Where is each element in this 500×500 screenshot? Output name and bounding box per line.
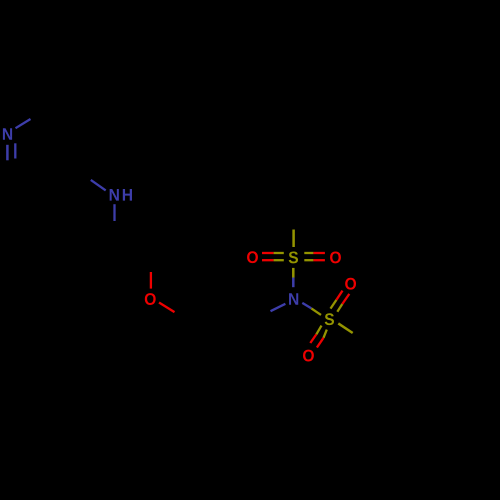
- double bond S1=O left, top line red half: [262, 252, 274, 254]
- bond N-S2 olive half: [311, 308, 321, 315]
- double bond S1=O right, bottom line olive half: [304, 259, 313, 261]
- double bond S1=O left, top line olive half: [274, 252, 284, 254]
- O bottom-left of S2 label: [303, 350, 314, 362]
- bond NH-CH2 half below NH (blue): [113, 204, 115, 221]
- double bond S1=O right, bottom line red half: [313, 259, 325, 261]
- bond CH2-O half above O (red): [150, 272, 152, 289]
- double bond S2=O bl, left line olive half: [316, 326, 321, 335]
- bond C4-N(H) half near NH (blue): [91, 180, 106, 191]
- atom N1 pyridine label: [3, 128, 12, 140]
- double bond S1=O left, bottom line olive half: [274, 259, 284, 261]
- double bond S2=O bl, left line red half: [310, 334, 316, 343]
- bond O-C(aryl) half (red): [159, 303, 175, 313]
- bond S2-C(phenyl2) half down-right (olive): [338, 323, 352, 333]
- sulfonamide N label: [289, 293, 298, 305]
- bond N-S2 blue half: [302, 303, 311, 309]
- sulfur S1 label: [289, 251, 298, 263]
- O top-right of S2 label: [345, 278, 356, 290]
- bond S1-C(phenyl) half up (olive): [292, 230, 295, 248]
- double bond S2=O tr, left line olive half: [331, 300, 337, 309]
- double bond S1=O left, bottom line red half: [262, 259, 274, 261]
- double bond S2=O tr, right line olive half: [337, 304, 342, 312]
- double bond S1=O right, top line olive half: [304, 252, 313, 254]
- bond N-C(aryl) half (blue): [271, 304, 286, 311]
- double bond S2=O tr, left line red half: [336, 291, 342, 300]
- bond N1=C6 pyridine inner double line (blue): [14, 143, 16, 158]
- double bond S2=O tr, right line red half: [342, 294, 349, 304]
- double bond S1=O right, top line red half: [313, 252, 325, 254]
- bond N-S1 blue half: [292, 278, 295, 288]
- double bond S2=O bl, right line red half: [317, 338, 324, 348]
- bond N1-C2 pyridine half (blue): [16, 119, 31, 128]
- O right of S1 label: [330, 251, 341, 263]
- O left of S1 label: [247, 251, 258, 263]
- double bond S2=O bl, right line olive half: [324, 330, 327, 338]
- bond N-S1 olive half: [292, 268, 295, 278]
- ether O label: [145, 293, 156, 305]
- sulfur S2 label: [325, 313, 334, 325]
- amine NH label: [110, 189, 119, 201]
- bond N1=C6 pyridine main line half (blue): [6, 145, 9, 161]
